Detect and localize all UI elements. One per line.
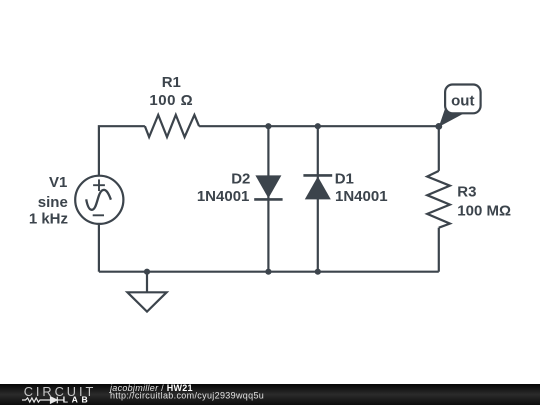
svg-text:D2: D2 (231, 170, 250, 187)
diode D1 (303, 175, 332, 199)
logo wire to LAB (57, 399, 63, 401)
svg-text:R3: R3 (457, 184, 476, 201)
node out junction dot (435, 123, 442, 130)
svg-text:http://circuitlab.com/cyuj2939: http://circuitlab.com/cyuj2939wqq5u (110, 391, 264, 401)
footer bar (0, 384, 540, 405)
wire D1 branch vertical (317, 126, 319, 272)
node junction dot bottom D2 (265, 269, 271, 275)
wire from V1 top to R1 left (99, 126, 145, 176)
wire V1 bottom to bottom rail (98, 224, 100, 272)
svg-text:R1: R1 (162, 74, 181, 91)
svg-text:1 kHz: 1 kHz (29, 211, 68, 228)
ground (127, 272, 166, 312)
svg-text:1N4001: 1N4001 (335, 188, 388, 205)
node junction dot top D1 (315, 123, 321, 129)
svg-text:LAB: LAB (63, 395, 91, 405)
node junction dot top D2 (265, 123, 271, 129)
svg-text:sine: sine (38, 194, 68, 211)
resistor R3 (427, 171, 450, 228)
node junction dot bottom D1 (315, 269, 321, 275)
voltage source V1 (75, 176, 123, 224)
svg-text:out: out (451, 93, 474, 110)
wire out node down to R3 top (438, 126, 440, 171)
logo resistor zigzag (22, 398, 51, 402)
logo diode (51, 397, 58, 403)
node out flag (439, 85, 481, 127)
resistor R1 (145, 115, 199, 137)
node junction dot ground (144, 269, 150, 275)
wire from R1 right to out node (199, 125, 439, 127)
wire bottom rail (99, 271, 439, 273)
wire D2 branch vertical (267, 126, 269, 272)
svg-text:V1: V1 (49, 174, 67, 191)
svg-text:100 MΩ: 100 MΩ (457, 203, 511, 220)
svg-text:D1: D1 (335, 170, 354, 187)
diode D2 (254, 175, 282, 199)
CircuitLab logo (14, 384, 110, 405)
svg-text:100 Ω: 100 Ω (149, 92, 193, 109)
footer attribution text (105, 384, 305, 405)
wire R3 bottom to bottom rail (438, 228, 440, 272)
svg-text:1N4001: 1N4001 (197, 188, 250, 205)
